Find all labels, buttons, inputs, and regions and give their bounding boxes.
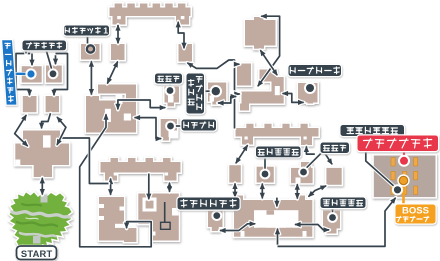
wire arrow courtyard inner top [274, 198, 279, 208]
wire zigzag D-cross [57, 116, 66, 145]
node dokukeshi 1 [165, 85, 176, 96]
boss room pillars [391, 158, 418, 195]
node okusuri [165, 121, 176, 132]
wire zigzag courtyard-R17 [308, 186, 327, 198]
room full helm [46, 66, 62, 83]
node save point (blue) [25, 68, 36, 79]
wire save cluster left loop [16, 54, 32, 97]
wire Z arrow bar-R12 [176, 21, 187, 49]
wire demon emblem leader [263, 158, 267, 171]
wire branch into complex bottom [234, 91, 240, 96]
wire courtyard bottom branch [275, 228, 280, 247]
room dokukeshi 2 [291, 162, 313, 183]
room center complex [237, 64, 284, 111]
wire double arrow R21-courtyard [260, 183, 265, 200]
label BOSS Necrode (orange) [394, 203, 436, 224]
node demon emblem [260, 169, 271, 180]
room top right square [245, 17, 276, 49]
label START [15, 245, 58, 261]
room D [46, 96, 59, 112]
room bottom center [138, 194, 179, 241]
wire midori leader [204, 89, 212, 93]
node dokukeshi 2 [298, 167, 309, 178]
wire midori room to complex [217, 94, 237, 106]
room Z target [179, 44, 193, 62]
wire arrow into room B [53, 54, 58, 66]
wire double arrow otoset-center [89, 60, 94, 95]
wire right loop to room D [51, 54, 67, 97]
node boss start (orange) [397, 174, 409, 186]
node boss entry [392, 184, 403, 195]
room otoset [81, 44, 100, 60]
wire red leader [403, 151, 405, 157]
wire branch into complex top [234, 62, 240, 67]
label beshumeruga (red) [356, 134, 439, 152]
wire zigzag courtyard-tsuchi [294, 222, 330, 233]
wire double arrow R20-courtyard [232, 183, 237, 198]
wire double arrow bar-R24 [167, 182, 172, 193]
green start area [10, 193, 72, 250]
wire X1 square loop [257, 14, 279, 87]
wire long path D1 loop [80, 113, 152, 246]
wire bar to platform [146, 174, 151, 201]
ring node otoset [85, 43, 96, 54]
label dark mantle [176, 196, 240, 210]
bridge detail bottom center room [161, 202, 171, 229]
wire double arrow cross-green [40, 177, 45, 195]
room earth boots [298, 83, 318, 104]
room save point [22, 66, 42, 82]
boss room [374, 156, 436, 198]
room dark mantle [208, 210, 223, 231]
wire otoset leader [86, 36, 90, 44]
wire double arrow bar-R2 [115, 24, 120, 44]
wire dokukeshi2 leader [305, 153, 322, 170]
svg-text:BOSS: BOSS [402, 206, 429, 217]
label dokukeshi 1 [154, 72, 183, 84]
wire orange leader [402, 183, 405, 205]
courtyard inner tabs [258, 210, 293, 232]
node dark mantle [211, 210, 222, 221]
wire complex to earth boots room [282, 91, 305, 105]
room okusuri [161, 119, 177, 141]
room courtyard [234, 196, 312, 237]
wire diag bar-R20 [235, 145, 248, 165]
platform in bottom center room [146, 201, 154, 209]
wire arrow into room A [29, 54, 34, 67]
svg-text:START: START [21, 248, 53, 259]
wire double diag R2-center [107, 61, 118, 85]
svg-text:1: 1 [103, 25, 108, 35]
room bottom left [99, 197, 136, 242]
node earth boots [304, 82, 316, 94]
label okusuri [180, 118, 217, 131]
label save point (blue, vertical) [1, 39, 18, 106]
node sealed ball (red) [398, 155, 410, 167]
wire zigzag yami-courtyard [219, 221, 256, 233]
wire blue save line [11, 72, 29, 76]
room midori paint [208, 83, 226, 105]
wire dokukeshi1 leader [168, 84, 172, 88]
node earth emblem [327, 212, 338, 223]
room dokukeshi 1 [165, 87, 180, 107]
wire sealed ball line to boss [366, 136, 395, 187]
wire okusuri leader [174, 124, 183, 128]
wire X2 crossing diag [260, 50, 278, 76]
room right of dokukeshi2 [326, 168, 341, 185]
wire fullhelm label leader [24, 51, 28, 54]
wire yami leader [215, 209, 219, 212]
label earth emblem [319, 196, 366, 209]
wire center to okusuri room [134, 115, 162, 141]
wire tsuchi leader [331, 208, 335, 214]
wire bottom long line to boss [278, 197, 397, 246]
room top crenellated bar [110, 4, 191, 25]
wire bar leg arrow [304, 146, 315, 155]
node midori paint [210, 85, 222, 97]
wire V connector C-cross [15, 114, 29, 147]
wire P2 path [61, 138, 109, 184]
room earth emblem [323, 211, 340, 234]
room big cross [15, 131, 69, 178]
wire dokukeshi2 diag arrow [325, 154, 333, 166]
room demon emblem [257, 167, 274, 183]
label demon emblem [255, 145, 302, 158]
wire long connector R12-complex [187, 60, 235, 129]
wire fullhelm diagonal to dot [46, 50, 53, 73]
label otoset1 [63, 24, 110, 36]
label midori paint (vertical) [185, 72, 205, 114]
room C [23, 96, 37, 112]
wire double arrow bar-R23 [108, 178, 113, 196]
room big center [86, 85, 136, 133]
room mid crenellated bar [101, 158, 181, 181]
label sealed fire ball [339, 124, 405, 137]
room right crenellated bar [236, 124, 319, 145]
label full helm [21, 39, 67, 51]
label dokukeshi 2 [319, 141, 350, 154]
node full helm [48, 68, 59, 79]
room small left [229, 165, 241, 182]
wire D to cross left [39, 113, 51, 129]
label earth boots [287, 64, 342, 77]
wire double arrow R16-courtyard [295, 183, 300, 199]
wire center to dokukeshi room [115, 100, 166, 110]
room below bar left [111, 44, 125, 60]
